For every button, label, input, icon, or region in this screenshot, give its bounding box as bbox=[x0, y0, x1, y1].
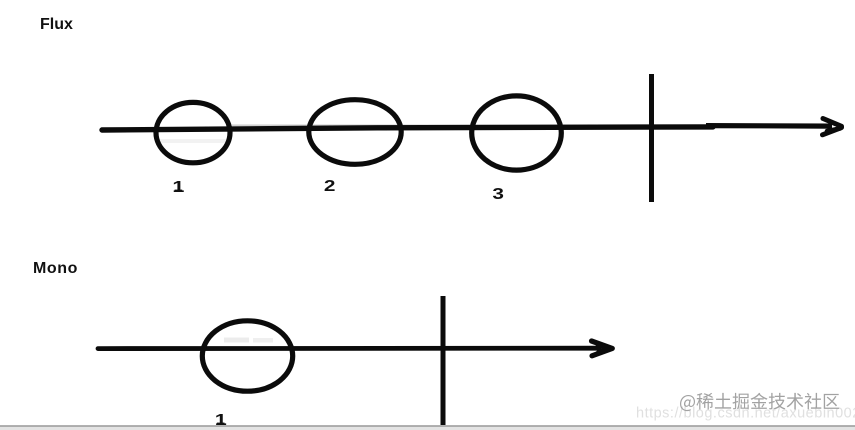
svg-text:Mono: Mono bbox=[33, 260, 78, 277]
svg-text:3: 3 bbox=[492, 184, 504, 202]
svg-text:Flux: Flux bbox=[40, 16, 73, 33]
svg-text:1: 1 bbox=[172, 179, 185, 197]
svg-text:2: 2 bbox=[324, 176, 336, 194]
